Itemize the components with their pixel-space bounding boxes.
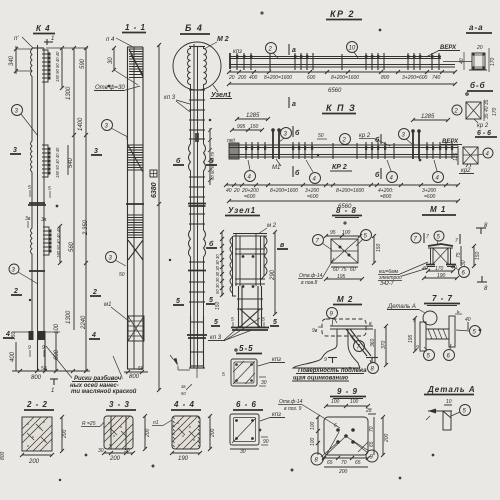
label 1-1 (122, 23, 146, 33)
beam KR2 total dim (227, 82, 457, 94)
splice plate 2 (29, 270, 45, 272)
kp3 label left with leaders (164, 95, 190, 112)
svg-text:1300: 1300 (66, 310, 72, 324)
svg-text:50: 50 (181, 391, 186, 396)
section mark b top (293, 126, 300, 137)
svg-text:м 2: м 2 (267, 223, 277, 229)
svg-text:195: 195 (408, 334, 414, 343)
svg-text:150 90 50 40 40: 150 90 50 40 40 (55, 51, 60, 82)
svg-text:6380: 6380 (151, 182, 158, 198)
svg-text:75: 75 (456, 252, 462, 258)
7 tick right (455, 234, 460, 244)
balloon 4 kp3 n1 (245, 160, 256, 182)
label 5-5 (236, 344, 262, 354)
balloon 4 kp3 n4 (433, 160, 444, 183)
svg-text:8 - 8: 8 - 8 (336, 206, 357, 215)
svg-text:200: 200 (28, 459, 40, 465)
svg-text:а: а (292, 101, 296, 108)
svg-text:190: 190 (437, 273, 446, 279)
svg-text:9: 9 (413, 318, 416, 324)
label KP3 (322, 103, 356, 114)
balloon 2 beam (266, 43, 279, 59)
label 6-6 right (475, 130, 497, 137)
dim 1285 right (411, 114, 450, 122)
2-2 bottom dim 200 (20, 453, 54, 465)
9-9 top dims (324, 399, 376, 414)
beam KP3 left end block (229, 143, 239, 159)
kp3 at 6-6 (260, 412, 285, 421)
uzel1 legs (237, 286, 263, 327)
dim 360 (369, 321, 376, 363)
svg-text:58: 58 (41, 366, 47, 372)
anchor stem and bell (293, 329, 360, 368)
7-7 balloons (456, 326, 481, 337)
long dim line 6340 (150, 43, 161, 392)
VERH label kp3 (440, 139, 462, 145)
svg-text:30: 30 (98, 448, 104, 454)
dim 125 left of 6-6 (453, 146, 459, 165)
svg-text:50: 50 (119, 272, 125, 278)
balloon 8 m2 (368, 360, 379, 374)
label 5 left (206, 297, 215, 304)
9-9 bottom dims (322, 456, 370, 475)
balloon 5 detail A (451, 405, 471, 417)
svg-text:20: 20 (228, 75, 235, 81)
detail A callout circle (423, 311, 437, 325)
svg-text:170: 170 (492, 107, 498, 116)
svg-text:М1: М1 (272, 165, 280, 171)
svg-text:9 - 9: 9 - 9 (337, 387, 358, 396)
dim line x74 (1400) (72, 46, 84, 137)
svg-text:60: 60 (333, 267, 339, 273)
svg-text:2: 2 (268, 47, 273, 53)
svg-text:=600: =600 (307, 194, 318, 200)
svg-text:5: 5 (176, 298, 180, 305)
dim 400 / 600 (10, 342, 60, 371)
beam KR2 top chord (229, 57, 441, 59)
section 6-6 right box (463, 147, 478, 164)
svg-text:п1: п1 (153, 420, 159, 426)
label KR2 (326, 9, 362, 20)
svg-text:100: 100 (54, 323, 60, 334)
kr2 label under beam (330, 164, 352, 171)
svg-text:7 - 7: 7 - 7 (432, 294, 453, 303)
base block col2 (128, 316, 144, 341)
svg-text:Узел1: Узел1 (228, 206, 256, 215)
svg-text:58: 58 (138, 366, 144, 372)
section 2-2 square (22, 417, 52, 451)
dim 30 top (108, 46, 138, 85)
section mark a top (289, 44, 296, 55)
9 tick bottom m2 (324, 357, 337, 363)
svg-text:170: 170 (435, 266, 444, 272)
uzel1 pointer label (210, 85, 232, 99)
section labels 3-3 (10, 147, 102, 155)
7-7 dim 195 (408, 316, 417, 353)
svg-text:370: 370 (381, 340, 387, 349)
svg-text:м1: м1 (104, 302, 111, 308)
hatch band middle (128, 145, 143, 172)
svg-text:100: 100 (350, 399, 359, 405)
svg-text:70: 70 (369, 426, 375, 432)
tiny rebar spacing texts right of block1 (55, 51, 60, 82)
svg-text:4 - 4: 4 - 4 (173, 400, 195, 409)
kp3 label at 5-5 (258, 357, 285, 366)
beam KP3 total dim (227, 199, 460, 210)
dim 150/100 at notch (11, 323, 60, 342)
9-9 left dims (310, 415, 320, 455)
7-7 dims top right (455, 309, 471, 330)
label 2-2 (24, 400, 54, 410)
corrugated anchor block 3 (43, 227, 51, 255)
dim line x62 (1300) (60, 46, 72, 100)
beam KP3 stirrups (246, 142, 452, 159)
svg-text:5-5: 5-5 (239, 344, 254, 353)
svg-text:90: 90 (263, 439, 269, 445)
top plate m2 (330, 326, 373, 329)
M1 bottom dims (422, 265, 459, 280)
balloon 3 kp3 right (399, 129, 413, 145)
svg-text:Риски разбивоч-: Риски разбивоч- (74, 375, 123, 382)
svg-text:1300: 1300 (66, 86, 72, 100)
svg-text:65: 65 (369, 441, 375, 447)
M1 weld note (378, 262, 428, 287)
tiny dims at B4 bottom (181, 384, 192, 396)
svg-text:200: 200 (237, 75, 247, 81)
svg-text:195: 195 (337, 274, 346, 280)
4-4 dims (170, 414, 216, 462)
svg-text:ти масляной краской: ти масляной краской (71, 388, 137, 395)
svg-text:ных осей нанес-: ных осей нанес- (70, 382, 119, 389)
svg-text:40: 40 (226, 188, 232, 194)
svg-text:150: 150 (475, 251, 481, 260)
svg-text:2: 2 (13, 288, 18, 295)
svg-text:28: 28 (365, 408, 372, 414)
uzel1 baseplate (231, 328, 269, 331)
label 3-3 (106, 400, 136, 410)
svg-text:=600: =600 (424, 194, 435, 200)
svg-text:50 30 30 30 30 30 30: 50 30 30 30 30 30 30 (215, 254, 220, 294)
svg-text:10: 10 (446, 399, 452, 405)
beam KR2 stirrups (237, 53, 439, 70)
dim 340 left top (9, 46, 32, 74)
2-2 right dim 200 (60, 415, 68, 453)
balloon 7 m2 (350, 335, 365, 352)
column B4 rungs mid (189, 177, 205, 197)
svg-text:б-б: б-б (470, 81, 486, 90)
svg-text:600: 600 (54, 349, 60, 360)
svg-text:М 2: М 2 (217, 36, 229, 43)
section 4-4 square (172, 416, 200, 449)
beam KR2 stirrup cross blobs (236, 55, 440, 59)
svg-text:9в: 9в (312, 328, 318, 334)
svg-text:2 - 2: 2 - 2 (26, 400, 48, 409)
svg-text:200: 200 (210, 428, 216, 438)
svg-text:5: 5 (231, 317, 234, 323)
balloon 3 col2 lower (106, 252, 127, 279)
column B4 rungs bottom (189, 316, 205, 378)
corrugated anchor block 1 (42, 50, 50, 82)
balloon 7 (313, 235, 333, 251)
svg-text:М 1: М 1 (430, 205, 446, 214)
kr2 label under 6-6 (459, 164, 474, 174)
8-8 box (331, 239, 358, 263)
dim 560 block3 (58, 224, 75, 265)
8-8 top dims 95 100 (324, 230, 362, 238)
3-3 dims (98, 414, 151, 462)
section mark 1 bottom (50, 379, 58, 394)
uzel1 left wavy profile (230, 237, 236, 296)
note text: paint marks (46, 346, 137, 395)
svg-text:200: 200 (384, 433, 390, 443)
svg-text:8+200=1600: 8+200=1600 (270, 188, 298, 194)
R=25 note (81, 420, 106, 427)
svg-text:740: 740 (432, 75, 441, 81)
5-5 dims (222, 372, 267, 386)
column K4 outline (31, 45, 45, 371)
svg-text:6560: 6560 (328, 88, 342, 94)
svg-text:5: 5 (273, 319, 277, 326)
node detail circle (173, 42, 221, 90)
svg-text:б: б (295, 169, 300, 177)
label M2 with leader (204, 36, 229, 49)
bottom dim line K4 (12, 366, 90, 381)
svg-text:20: 20 (233, 188, 240, 194)
dim 50 small (317, 133, 327, 139)
7-7 tick 9 marks (413, 318, 419, 351)
svg-text:6 - 6: 6 - 6 (477, 130, 491, 137)
section 6-6 bottom box (230, 414, 259, 445)
section 3-3 square (104, 416, 133, 449)
dim 995 150 (230, 124, 264, 132)
label M2 (333, 295, 362, 305)
galvanize note (292, 368, 367, 382)
svg-text:1400: 1400 (78, 117, 84, 131)
arrow corner bottom B4 (170, 355, 190, 370)
svg-text:=800: =800 (380, 194, 391, 200)
label P with leader (14, 36, 33, 48)
svg-text:150: 150 (250, 124, 259, 130)
svg-text:800: 800 (129, 374, 140, 380)
svg-text:5: 5 (48, 186, 51, 192)
text hole d30 (94, 85, 140, 91)
tiny 5 marks (28, 185, 51, 198)
hatch band lower with X (128, 215, 143, 260)
svg-text:Б 4: Б 4 (185, 23, 203, 33)
8-8 right dim (372, 234, 382, 265)
corrugated anchor block 2 (42, 145, 50, 177)
svg-text:75: 75 (341, 267, 347, 273)
column B4 bulge 2 (189, 230, 206, 316)
svg-text:30: 30 (261, 380, 267, 386)
label M1 (422, 205, 456, 215)
balloon 4 kp3 n3 with b mark (375, 160, 398, 183)
svg-text:9: 9 (416, 345, 419, 351)
section mark b2 (375, 134, 381, 144)
svg-text:200: 200 (145, 428, 151, 438)
beam KP3 top chord (229, 145, 458, 148)
svg-text:1: 1 (51, 36, 54, 42)
label B4 (180, 23, 210, 34)
svg-text:800: 800 (0, 451, 6, 460)
uzel1 rebar dots (242, 255, 255, 288)
svg-text:5: 5 (209, 297, 213, 304)
svg-text:50 50 50 50 75: 50 50 50 50 75 (210, 151, 215, 180)
svg-text:200: 200 (109, 456, 121, 462)
balloon 4 at 6-6 (478, 148, 493, 158)
svg-text:290: 290 (270, 269, 276, 281)
balloon 8 9-9 (311, 453, 323, 465)
8-8 bottom dims (324, 267, 364, 281)
svg-text:б: б (295, 129, 300, 137)
column B4 rungs lower (188, 262, 206, 302)
balloon 3 col2 upper (102, 120, 128, 141)
svg-text:65: 65 (327, 460, 333, 466)
svg-text:1: 1 (51, 388, 54, 394)
dim line x74 lower (1300) (66, 135, 74, 330)
svg-text:590: 590 (80, 58, 86, 69)
label 9-9 (330, 387, 366, 399)
svg-text:995: 995 (237, 124, 246, 130)
balloon 7 m1 (411, 233, 429, 243)
beam KP3 posts with round tops right (411, 129, 421, 159)
svg-text:б: б (375, 171, 380, 179)
svg-text:R =25: R =25 (82, 421, 96, 427)
beam KP3 stirrup blobs (245, 146, 453, 150)
svg-text:п 4: п 4 (106, 37, 115, 43)
svg-text:6 - 6: 6 - 6 (236, 400, 257, 409)
beam KP3 posts with round tops left (271, 128, 281, 159)
balloon 3 lower (9, 264, 38, 284)
svg-text:95: 95 (330, 230, 336, 236)
detail A callout label (387, 304, 425, 313)
svg-text:Отв.ф-14: Отв.ф-14 (299, 273, 323, 279)
M1 label with leader (272, 159, 281, 171)
label a-a (466, 23, 492, 33)
uzel1 rungs (235, 249, 265, 284)
svg-text:КР 2: КР 2 (330, 9, 355, 19)
svg-text:65: 65 (355, 460, 361, 466)
svg-text:1 - 1: 1 - 1 (125, 23, 146, 32)
label K4 (33, 24, 55, 34)
svg-text:540: 540 (68, 157, 74, 168)
beam KR2 bottom chord (229, 65, 455, 68)
svg-text:3: 3 (94, 148, 98, 155)
svg-text:5: 5 (28, 185, 31, 191)
dim 150 left of legs (215, 301, 221, 310)
svg-text:3 - 3: 3 - 3 (109, 400, 130, 409)
splice plate 1 (28, 203, 46, 205)
splice B4 lower (187, 335, 207, 338)
p1 note (152, 420, 172, 426)
svg-text:150: 150 (215, 301, 221, 310)
svg-text:2: 2 (454, 109, 459, 115)
svg-text:35 40 35: 35 40 35 (484, 99, 490, 119)
labels 5 at baseplate (211, 317, 279, 327)
svg-text:кпз: кпз (233, 49, 242, 55)
svg-text:кп 3: кп 3 (164, 95, 176, 101)
detail A dim 10 (444, 399, 452, 405)
9-9 baseplate (321, 417, 369, 461)
section mark 8 top (476, 223, 488, 234)
long dim line x86 (590 / 2350 / 2240) (46, 46, 89, 373)
svg-text:2240: 2240 (81, 315, 87, 330)
M1 dims right (456, 244, 481, 268)
svg-text:7: 7 (455, 238, 458, 244)
section mark 8 bottom (477, 276, 488, 292)
balloon 2 kp3 (340, 134, 351, 145)
svg-text:Узел1: Узел1 (211, 92, 231, 99)
section mark b bottom (293, 166, 300, 177)
column 1-1 outline (127, 47, 143, 369)
svg-text:б: б (209, 240, 214, 248)
svg-text:150: 150 (376, 243, 382, 252)
label 7-7 (424, 294, 460, 306)
dim 370 (381, 324, 388, 367)
detail A drawing (426, 409, 452, 431)
svg-text:КР 2: КР 2 (332, 164, 347, 171)
svg-text:100: 100 (310, 421, 316, 430)
label b-b (467, 81, 493, 91)
balloon 10 beam (347, 42, 359, 59)
svg-text:150: 150 (11, 331, 17, 340)
section labels 4-4 (3, 331, 100, 339)
svg-text:К 4: К 4 (36, 24, 51, 33)
svg-text:1285: 1285 (246, 113, 260, 119)
svg-text:100: 100 (310, 437, 316, 446)
label Uzel 1 (225, 206, 260, 216)
label 8-8 (332, 206, 362, 218)
9-9 right dims (369, 415, 390, 457)
balloon 4 kp3 n2 (306, 160, 321, 184)
svg-text:8+200=1600: 8+200=1600 (264, 75, 292, 81)
svg-text:800: 800 (381, 75, 390, 81)
svg-text:в: в (369, 321, 372, 327)
M1 detail drawing (426, 244, 456, 267)
svg-text:30: 30 (461, 260, 467, 266)
tiny 3b marks (25, 216, 47, 229)
kp3 label with fan leaders (208, 318, 260, 341)
svg-text:150 50 40 40 40: 150 50 40 40 40 (55, 147, 60, 178)
svg-text:5: 5 (214, 319, 218, 326)
svg-text:кр 2: кр 2 (359, 133, 371, 139)
svg-text:К П З: К П З (326, 103, 356, 113)
kr2 label under b-b (474, 119, 489, 129)
column B4 bulge 1 (189, 144, 206, 230)
kr2 small label (359, 133, 390, 146)
beam KR2 left end (229, 53, 231, 69)
balloon 3 upper (12, 105, 39, 137)
svg-text:4: 4 (91, 332, 96, 339)
svg-text:в пов.8: в пов.8 (301, 280, 318, 286)
foot tick right (366, 358, 378, 364)
balloon 3 kp3 left (278, 128, 292, 144)
svg-text:200: 200 (338, 469, 348, 475)
svg-text:4: 4 (5, 331, 10, 338)
6-6 bottom dims (230, 437, 269, 455)
svg-text:5: 5 (222, 372, 225, 378)
svg-text:а-а: а-а (469, 23, 484, 32)
svg-text:360: 360 (370, 338, 376, 347)
hole note 8-8 (298, 258, 334, 286)
slanted leg m2 (346, 329, 371, 356)
balloon 9 m2 (327, 308, 338, 324)
svg-text:200: 200 (62, 429, 68, 439)
section label 5 left of B4 (173, 298, 184, 305)
svg-text:Деталь А: Деталь А (427, 385, 476, 394)
balloon 9 9-9 (366, 450, 378, 462)
section mark a bottom (289, 97, 296, 108)
